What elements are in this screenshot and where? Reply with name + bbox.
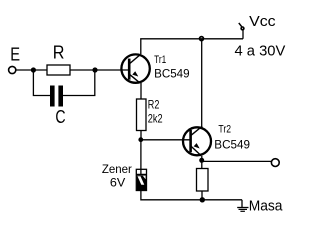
Vcc arrow [239, 23, 245, 31]
junction bottom rail [200, 197, 205, 202]
wire to output terminal [202, 160, 271, 162]
transistor Q2 (Tr2 BC549) [183, 126, 211, 156]
wire R2 to junction [140, 131, 142, 140]
wire Tr1 emitter to R2 [140, 83, 142, 99]
svg-text:4 a 30V: 4 a 30V [235, 42, 286, 59]
node E input terminal [9, 66, 16, 73]
svg-text:BC549: BC549 [154, 67, 190, 81]
junction left of R [31, 67, 36, 72]
transistor Q1 (Tr1 BC549) [121, 54, 149, 83]
diode D1 Zener 6V [136, 169, 146, 190]
wire Tr2 emitter to output node [201, 156, 203, 169]
wire bottom rail [141, 191, 242, 200]
wire Tr1 collector to top rail [141, 39, 243, 54]
junction R2 / Tr2 base / zener [138, 137, 143, 142]
resistor R [47, 65, 70, 75]
capacitor C [50, 86, 63, 107]
svg-text:Zener: Zener [102, 162, 132, 176]
wire zener riser [140, 140, 142, 169]
wire Vcc riser [242, 27, 244, 39]
wire input to resistor R [16, 69, 47, 71]
wire down-left to capacitor [33, 70, 50, 96]
svg-text:Vcc: Vcc [249, 13, 276, 30]
wire junction to Tr2 base [141, 139, 192, 141]
ground Masa [237, 200, 248, 212]
resistor R2 [137, 99, 147, 131]
svg-text:2k2: 2k2 [148, 112, 163, 126]
svg-text:BC549: BC549 [214, 138, 250, 152]
svg-text:Tr2: Tr2 [218, 124, 231, 136]
wire R3 to bottom rail [201, 191, 203, 200]
output terminal [271, 159, 279, 167]
wire Tr2 collector riser [201, 39, 203, 127]
wire R to Tr1 base [70, 69, 130, 71]
svg-text:Masa: Masa [249, 198, 283, 215]
svg-text:R2: R2 [148, 98, 160, 112]
svg-text:6V: 6V [110, 176, 125, 190]
svg-text:R: R [53, 43, 65, 63]
svg-text:C: C [55, 107, 65, 127]
resistor R3 (emitter resistor) [197, 169, 209, 192]
junction right of R [92, 67, 97, 72]
wire capacitor to right vertical [63, 70, 95, 96]
junction top rail / Tr2 collector [200, 37, 204, 41]
svg-text:Tr1: Tr1 [154, 54, 166, 66]
svg-text:E: E [10, 45, 20, 65]
junction emitter / output [199, 158, 204, 163]
